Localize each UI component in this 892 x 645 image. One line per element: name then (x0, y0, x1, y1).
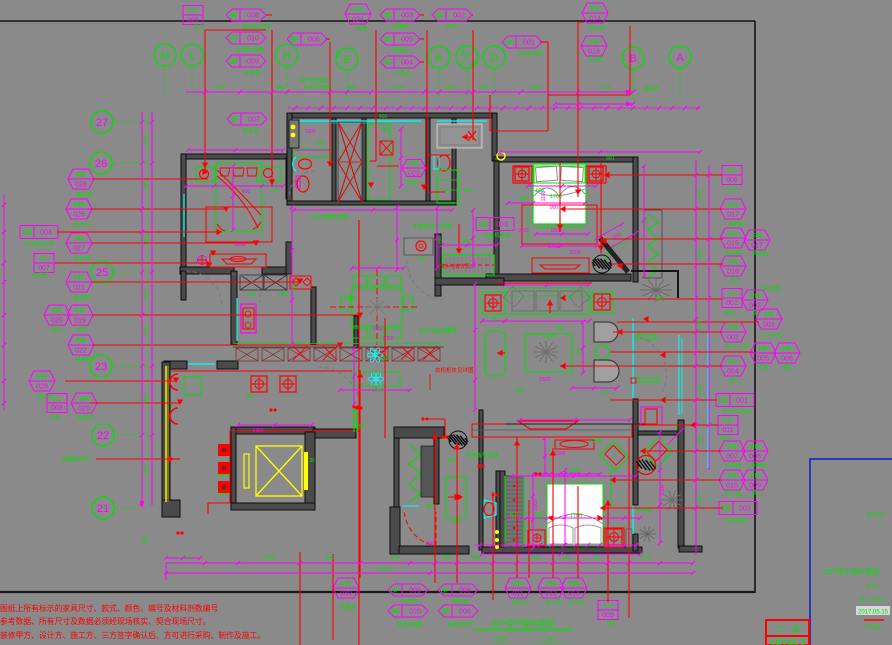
svg-text:FR: FR (590, 6, 599, 13)
svg-text:双人床: 双人床 (74, 220, 91, 228)
svg-text:007: 007 (726, 454, 738, 461)
svg-text:E: E (435, 52, 442, 64)
svg-text:005: 005 (757, 356, 769, 363)
svg-text:1500: 1500 (554, 451, 565, 457)
svg-text:1540: 1540 (277, 292, 288, 298)
svg-text:BF: BF (505, 40, 514, 47)
svg-text:100: 100 (246, 394, 255, 400)
svg-text:FR: FR (728, 202, 737, 209)
svg-text:園几: 園几 (782, 364, 794, 371)
svg-text:台灯柜: 台灯柜 (32, 271, 49, 279)
svg-text:台灯: 台灯 (724, 309, 736, 317)
svg-text:吸顶灯: 吸顶灯 (78, 413, 95, 421)
svg-text:4: 4 (460, 48, 465, 58)
svg-text:1500: 1500 (539, 377, 551, 383)
svg-text:LL: LL (53, 396, 61, 403)
svg-text:走廊灯: 走廊灯 (340, 603, 357, 611)
svg-text:1350: 1350 (382, 336, 393, 342)
svg-text:冷季省: 冷季省 (394, 69, 411, 77)
svg-text:FR: FR (727, 444, 736, 451)
svg-text:001: 001 (523, 40, 535, 47)
svg-text:洗衣机电源: 洗衣机电源 (483, 231, 511, 239)
svg-text:016: 016 (727, 269, 739, 276)
svg-text:300: 300 (442, 555, 451, 561)
svg-text:P-002: P-002 (865, 625, 882, 631)
svg-text:M: M (160, 50, 169, 62)
svg-text:床头柜: 床头柜 (568, 598, 585, 606)
svg-text:FR: FR (76, 172, 85, 179)
svg-text:600: 600 (520, 196, 529, 202)
svg-text:木柜做法见详图: 木柜做法见详图 (413, 222, 452, 230)
svg-text:023: 023 (408, 171, 420, 178)
svg-text:1350: 1350 (372, 326, 383, 332)
svg-text:017: 017 (751, 243, 763, 250)
svg-text:实木板: 实木板 (243, 127, 260, 135)
svg-text:1500: 1500 (569, 250, 580, 256)
svg-text:配头: 配头 (51, 325, 63, 333)
svg-text:壁灯: 壁灯 (77, 325, 89, 333)
svg-text:FR: FR (75, 308, 84, 315)
svg-text:007: 007 (248, 117, 260, 124)
svg-text:018: 018 (588, 49, 600, 56)
svg-text:2170: 2170 (214, 85, 225, 91)
svg-text:1300: 1300 (379, 356, 390, 362)
svg-text:公司浏调: 公司浏调 (310, 84, 330, 91)
svg-text:600: 600 (270, 187, 279, 193)
svg-text:1300: 1300 (542, 334, 553, 340)
svg-text:200: 200 (479, 85, 488, 91)
svg-text:吊灯: 吊灯 (193, 23, 205, 31)
svg-text:004: 004 (40, 230, 52, 237)
svg-text:FR: FR (341, 581, 350, 588)
svg-text:LL: LL (40, 256, 48, 263)
svg-text:茶几: 茶几 (729, 276, 741, 284)
svg-text:1500: 1500 (143, 464, 149, 475)
svg-text:FR: FR (728, 359, 737, 366)
svg-text:600: 600 (446, 85, 455, 91)
svg-text:029: 029 (78, 406, 90, 413)
svg-text:CA: CA (22, 230, 32, 237)
svg-text:900: 900 (382, 128, 391, 134)
svg-text:H: H (283, 50, 291, 62)
svg-text:003: 003 (496, 222, 508, 229)
svg-text:LL: LL (724, 418, 732, 425)
svg-text:防湿石脂板: 防湿石脂板 (397, 621, 422, 628)
svg-text:衣柜柜体见详图: 衣柜柜体见详图 (435, 366, 474, 374)
svg-text:BF: BF (383, 13, 392, 20)
svg-text:双人床: 双人床 (545, 598, 562, 606)
svg-text:2017.05.15: 2017.05.15 (858, 610, 889, 616)
svg-text:CA: CA (718, 398, 728, 405)
svg-text:FR: FR (750, 473, 759, 480)
svg-text:1500: 1500 (660, 484, 666, 495)
svg-text:001: 001 (763, 322, 775, 329)
svg-text:FR: FR (79, 396, 88, 403)
svg-text:1900: 1900 (697, 249, 703, 260)
svg-text:BF: BF (441, 588, 450, 595)
svg-text:FR: FR (569, 581, 578, 588)
svg-text:22: 22 (97, 430, 109, 442)
svg-text:900: 900 (437, 236, 442, 244)
svg-text:皮包: 皮包 (757, 363, 769, 371)
svg-text:LEVEL 2: LEVEL 2 (770, 637, 805, 645)
svg-text:600: 600 (143, 326, 149, 335)
svg-text:结构柱: 结构柱 (76, 190, 93, 198)
svg-text:600: 600 (534, 512, 543, 518)
svg-text:25: 25 (96, 267, 108, 279)
svg-text:BF: BF (391, 609, 400, 616)
svg-text:019: 019 (74, 318, 86, 325)
svg-text:厨房: 厨房 (406, 178, 418, 186)
svg-text:2160: 2160 (569, 472, 580, 478)
svg-text:2100: 2100 (143, 394, 149, 405)
svg-text:LL: LL (728, 291, 736, 298)
svg-text:吊灯: 吊灯 (726, 185, 738, 193)
svg-text:840: 840 (326, 555, 335, 561)
svg-text:E: E (343, 54, 350, 66)
svg-text:单人沙发: 单人沙发 (726, 342, 749, 350)
svg-text:1440: 1440 (469, 555, 480, 561)
svg-text:FR: FR (353, 7, 362, 14)
svg-text:装修甲方、设计方、施工方、三方签字确认后、方可进行采购、制作: 装修甲方、设计方、施工方、三方签字确认后、方可进行采购、制作及施工。 (0, 630, 265, 640)
svg-text:006: 006 (726, 177, 738, 184)
svg-text:铝扣板: 铝扣板 (452, 597, 469, 605)
svg-text:015: 015 (727, 241, 739, 248)
svg-text:022: 022 (75, 348, 87, 355)
svg-text:白色: 白色 (446, 22, 458, 30)
svg-text:700: 700 (417, 256, 426, 262)
svg-text:265: 265 (391, 555, 400, 561)
svg-text:1500: 1500 (697, 384, 703, 395)
svg-text:A: A (676, 52, 684, 64)
svg-text:FR: FR (752, 233, 761, 240)
svg-text:460: 460 (656, 296, 665, 302)
svg-text:实木地板: 实木地板 (760, 285, 780, 292)
svg-text:PL-J2-02: PL-J2-02 (859, 598, 884, 604)
svg-text:BF: BF (290, 37, 299, 44)
svg-text:800: 800 (348, 85, 357, 91)
svg-text:030: 030 (340, 591, 352, 598)
svg-text:石脂板: 石脂板 (392, 22, 409, 30)
svg-text:实木地板乳胶漆: 实木地板乳胶漆 (311, 213, 350, 221)
svg-text:CA: CA (478, 222, 488, 229)
svg-text:休闲椅: 休闲椅 (749, 461, 766, 469)
svg-text:015: 015 (726, 483, 738, 490)
svg-text:26: 26 (95, 158, 107, 170)
svg-text:BF: BF (441, 609, 450, 616)
svg-text:装饰画: 装饰画 (752, 249, 769, 257)
svg-text:004: 004 (401, 60, 413, 67)
svg-text:木地板乳胶漆: 木地板乳胶漆 (465, 451, 499, 459)
svg-text:1350: 1350 (372, 388, 383, 394)
svg-text:003: 003 (401, 13, 413, 20)
svg-text:630: 630 (248, 292, 257, 298)
svg-text:面盖的: 面盖的 (644, 85, 659, 92)
svg-text:铝扣板吊顶: 铝扣板吊顶 (447, 621, 472, 628)
svg-text:1050: 1050 (143, 134, 149, 145)
svg-text:FR: FR (727, 473, 736, 480)
svg-text:021: 021 (73, 285, 85, 292)
svg-text:008: 008 (749, 454, 761, 461)
svg-text:J2户型平面布置图: J2户型平面布置图 (823, 567, 879, 576)
svg-text:900: 900 (356, 424, 365, 430)
svg-text:1500: 1500 (304, 129, 315, 135)
svg-text:006: 006 (459, 609, 471, 616)
svg-text:025: 025 (73, 212, 85, 219)
svg-text:LL: LL (604, 603, 612, 610)
svg-text:FR: FR (758, 346, 767, 353)
svg-text:006: 006 (187, 17, 199, 24)
svg-text:J2户型平面布置图: J2户型平面布置图 (490, 618, 554, 628)
svg-text:900: 900 (143, 181, 149, 190)
svg-text:FR: FR (74, 236, 83, 243)
svg-text:21: 21 (97, 503, 109, 515)
svg-text:020: 020 (51, 318, 63, 325)
svg-text:028: 028 (36, 384, 48, 391)
svg-text:008: 008 (247, 13, 259, 20)
svg-text:500: 500 (379, 114, 388, 120)
svg-text:图纸上所有标示的家具尺寸、款式、颜色、编号及材料剂数编号: 图纸上所有标示的家具尺寸、款式、颜色、编号及材料剂数编号 (0, 603, 219, 613)
svg-text:008: 008 (51, 405, 63, 412)
svg-text:防湿石脂板: 防湿石脂板 (236, 45, 264, 53)
svg-text:BF: BF (229, 59, 238, 66)
svg-text:1763: 1763 (639, 555, 650, 561)
svg-text:001: 001 (736, 398, 748, 405)
svg-text:600: 600 (510, 512, 519, 518)
svg-text:FR: FR (513, 581, 522, 588)
svg-text:FR: FR (74, 275, 83, 282)
svg-text:LL: LL (728, 168, 736, 175)
svg-text:自动感应系统: 自动感应系统 (722, 408, 752, 415)
svg-text:600: 600 (316, 141, 325, 147)
svg-text:FR: FR (76, 338, 85, 345)
svg-text:改变宏: 改变宏 (392, 46, 409, 54)
svg-text:017: 017 (727, 212, 739, 219)
svg-text:冷季省: 冷季省 (402, 597, 419, 605)
svg-text:茶几: 茶几 (751, 489, 763, 497)
svg-text:011: 011 (722, 427, 733, 434)
svg-text:床头柜: 床头柜 (74, 254, 91, 262)
svg-text:FR: FR (74, 202, 83, 209)
svg-text:1350: 1350 (252, 428, 263, 434)
svg-text:014: 014 (589, 16, 601, 23)
svg-text:FR: FR (409, 161, 418, 168)
svg-text:1460: 1460 (344, 296, 355, 302)
svg-text:FR: FR (750, 444, 759, 451)
svg-text:厨卵: 厨卵 (356, 24, 368, 32)
svg-text:2400: 2400 (143, 289, 149, 300)
svg-text:027: 027 (73, 246, 85, 253)
svg-text:002: 002 (739, 506, 751, 513)
svg-text:009: 009 (602, 612, 614, 619)
svg-text:23: 23 (95, 361, 107, 373)
svg-text:FR: FR (750, 293, 759, 300)
svg-text:冷气台: 冷气台 (866, 511, 884, 519)
svg-text:006: 006 (781, 356, 793, 363)
svg-text:1300: 1300 (514, 388, 525, 394)
svg-text:2160: 2160 (533, 499, 539, 510)
svg-text:燃气表位置详: 燃气表位置详 (300, 77, 330, 84)
svg-text:009: 009 (247, 59, 259, 66)
svg-text:1:75: 1:75 (866, 584, 878, 590)
svg-text:双人床: 双人床 (589, 24, 606, 32)
svg-text:600: 600 (536, 188, 545, 194)
svg-text:吸顶灯: 吸顶灯 (512, 598, 529, 606)
svg-text:BF: BF (229, 36, 238, 43)
svg-text:160: 160 (556, 326, 565, 332)
svg-text:1460: 1460 (697, 189, 703, 200)
svg-text:005: 005 (401, 37, 413, 44)
svg-text:FR: FR (764, 312, 773, 319)
svg-text:730: 730 (592, 555, 601, 561)
svg-text:冷季省: 冷季省 (244, 69, 261, 77)
svg-text:结构柱: 结构柱 (74, 293, 91, 301)
svg-text:800: 800 (426, 504, 435, 510)
svg-text:345: 345 (562, 555, 571, 561)
svg-text:参考数据、所有尺寸及数据必须经现场核实、契合现场尺寸。: 参考数据、所有尺寸及数据必须经现场核实、契合现场尺寸。 (0, 616, 211, 626)
svg-text:装饰画: 装饰画 (728, 220, 745, 228)
svg-text:007: 007 (38, 265, 50, 272)
svg-text:14950: 14950 (377, 567, 391, 573)
svg-text:茶几: 茶几 (729, 376, 741, 384)
svg-text:LL: LL (189, 8, 197, 15)
svg-text:BF: BF (230, 117, 239, 124)
svg-text:1770: 1770 (392, 85, 403, 91)
svg-text:013: 013 (568, 591, 580, 598)
svg-text:024: 024 (352, 17, 364, 24)
svg-text:BF: BF (391, 588, 400, 595)
svg-text:30: 30 (309, 458, 315, 464)
svg-text:010: 010 (409, 609, 421, 616)
svg-text:BF: BF (383, 37, 392, 44)
svg-text:FR: FR (546, 581, 555, 588)
svg-text:4200: 4200 (529, 85, 540, 91)
svg-text:BF: BF (229, 13, 238, 20)
svg-text:自动感应: 自动感应 (727, 517, 747, 524)
svg-text:CA: CA (721, 506, 731, 513)
svg-text:009: 009 (749, 483, 761, 490)
svg-text:实木地板详见: 实木地板详见 (440, 263, 470, 270)
svg-text:700: 700 (490, 317, 499, 323)
svg-text:实木地板乳胶漆: 实木地板乳胶漆 (419, 327, 458, 335)
svg-text:FR: FR (589, 39, 598, 46)
svg-text:002: 002 (453, 13, 465, 20)
svg-text:比例: 比例 (494, 636, 506, 644)
svg-text:27: 27 (96, 117, 108, 129)
svg-text:003: 003 (749, 303, 761, 310)
svg-text:三人沙发: 三人沙发 (760, 331, 783, 339)
svg-text:2400: 2400 (644, 216, 649, 227)
svg-text:002: 002 (726, 300, 738, 307)
svg-text:1800: 1800 (547, 244, 558, 250)
svg-text:600: 600 (464, 188, 473, 194)
svg-text:400: 400 (242, 189, 251, 195)
svg-text:900: 900 (550, 205, 559, 211)
svg-text:二 层: 二 层 (776, 625, 800, 634)
svg-text:FR: FR (52, 308, 61, 315)
svg-text:休闲椅: 休闲椅 (725, 461, 742, 469)
svg-text:1050: 1050 (697, 494, 703, 505)
svg-text:800: 800 (426, 541, 435, 547)
svg-text:防水石脂板: 防水石脂板 (517, 50, 542, 57)
svg-text:1500: 1500 (590, 438, 601, 444)
svg-text:012: 012 (545, 591, 557, 598)
svg-text:FR: FR (37, 374, 46, 381)
svg-text:010: 010 (247, 36, 259, 43)
svg-text:D: D (490, 52, 498, 64)
svg-text:900: 900 (697, 436, 703, 445)
svg-text:2640: 2640 (264, 555, 275, 561)
svg-text:FR: FR (782, 346, 791, 353)
svg-text:BF: BF (383, 60, 392, 67)
svg-text:茶几架: 茶几架 (725, 489, 742, 497)
svg-text:008: 008 (459, 588, 471, 595)
svg-text:1050: 1050 (517, 228, 528, 234)
svg-text:900: 900 (606, 156, 615, 162)
svg-text:2400: 2400 (697, 319, 703, 330)
svg-text:900: 900 (576, 348, 581, 356)
svg-text:980: 980 (143, 536, 149, 545)
svg-text:980: 980 (531, 555, 540, 561)
svg-text:FR: FR (728, 231, 737, 238)
svg-text:床头柜: 床头柜 (588, 55, 605, 63)
svg-text:L: L (189, 50, 195, 62)
svg-text:FR: FR (728, 325, 737, 332)
svg-text:BF: BF (435, 13, 444, 20)
svg-text:1900: 1900 (143, 234, 149, 245)
svg-text:004: 004 (727, 369, 739, 376)
svg-text:居循防栏杆: 居循防栏杆 (62, 455, 90, 463)
svg-text:006: 006 (308, 37, 320, 44)
svg-text:600: 600 (448, 458, 457, 464)
svg-text:1460: 1460 (599, 85, 610, 91)
svg-text:011: 011 (512, 591, 523, 598)
svg-text:550: 550 (276, 85, 285, 91)
svg-text:750: 750 (292, 283, 298, 292)
svg-text:009: 009 (409, 588, 421, 595)
svg-text:FR: FR (728, 259, 737, 266)
svg-text:002: 002 (727, 335, 739, 342)
svg-text:吊灯: 吊灯 (49, 413, 61, 421)
svg-text:028: 028 (75, 182, 87, 189)
svg-text:自动感应系统: 自动感应系统 (24, 240, 54, 247)
svg-text:660: 660 (452, 519, 461, 525)
svg-text:650: 650 (601, 389, 609, 394)
svg-text:吊灯: 吊灯 (606, 619, 618, 627)
